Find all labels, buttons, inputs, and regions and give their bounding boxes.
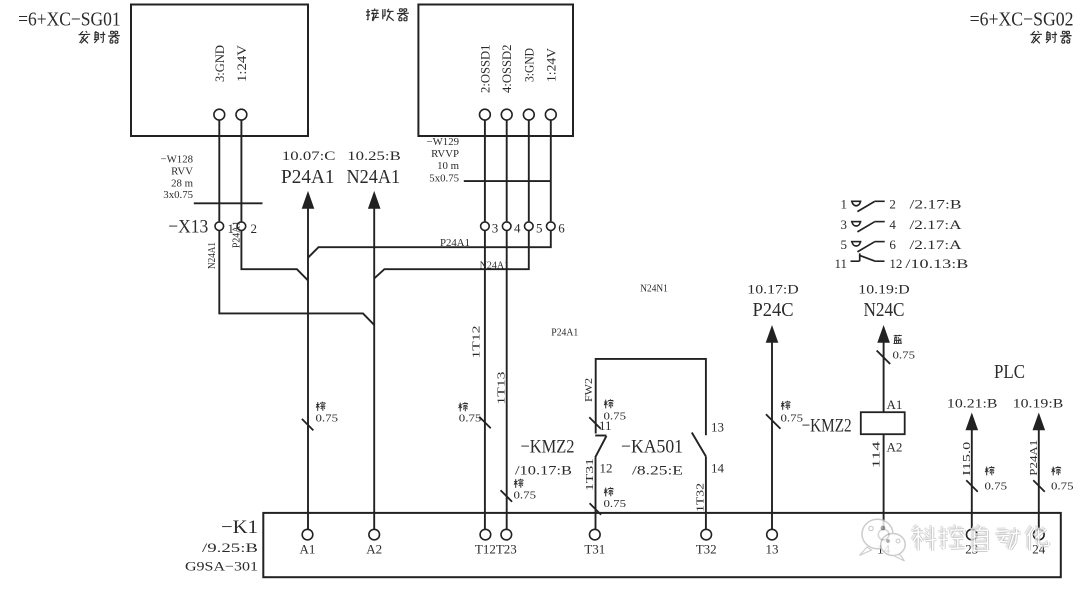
transmitter label 发射器 (left) — [79, 31, 91, 43]
terminal 4 — [502, 222, 511, 231]
svg-text:3:GND: 3:GND — [213, 45, 227, 82]
svg-text:0.75: 0.75 — [604, 499, 627, 510]
svg-text:/2.17:A: /2.17:A — [910, 217, 963, 232]
wire 1T13 terminal4 to K1:T23 — [506, 231, 508, 530]
svg-text:10.07:C: 10.07:C — [282, 149, 336, 163]
core slash (24) — [1033, 480, 1045, 492]
svg-text:6: 6 — [889, 237, 896, 252]
K1 terminal T23 — [501, 529, 512, 540]
wire spec 棕 0.75 (P24A1 riser) — [316, 402, 325, 411]
terminal X13:2 — [237, 222, 246, 231]
K1 terminal T32 — [701, 529, 712, 540]
svg-text:1:24V: 1:24V — [235, 45, 249, 82]
wire 1T12 terminal3 to K1:T12 — [484, 231, 486, 530]
svg-text:3:GND: 3:GND — [522, 48, 536, 82]
K1 terminal 14 — [878, 529, 889, 540]
receiver pin 3:GND — [523, 109, 534, 120]
svg-text:=6+XC−SG01: =6+XC−SG01 — [18, 9, 121, 31]
K1 terminal A1 — [302, 529, 313, 540]
wire X13:2 to P24A1 riser — [241, 231, 308, 280]
core slash N24C — [877, 350, 891, 364]
svg-text:−W128: −W128 — [161, 154, 193, 166]
K1 terminal T12 — [480, 529, 491, 540]
wire X13:1 to N24A1 riser — [219, 231, 374, 325]
svg-text:1:24V: 1:24V — [544, 48, 558, 82]
svg-text:−W129: −W129 — [427, 136, 459, 148]
cable W128 marker line — [194, 202, 263, 204]
wire spec 棕 0.75 (FW2) — [604, 399, 613, 408]
svg-text:/2.17:A: /2.17:A — [910, 237, 963, 252]
svg-text:1T12: 1T12 — [471, 326, 482, 359]
svg-text:A1: A1 — [300, 542, 316, 557]
svg-text:T32: T32 — [696, 542, 717, 557]
svg-text:=6+XC−SG02: =6+XC−SG02 — [970, 9, 1074, 31]
svg-text:P24A1: P24A1 — [231, 221, 242, 248]
svg-text:I15.0: I15.0 — [962, 442, 973, 476]
svg-text:14: 14 — [711, 461, 725, 476]
svg-text:−K1: −K1 — [221, 517, 258, 538]
wire 3:GND to X13:1 — [218, 120, 220, 222]
watermark wechat logo + 科控自动化 — [860, 519, 1049, 561]
svg-text:P24A1: P24A1 — [1029, 440, 1040, 476]
svg-text:RVVP: RVVP — [431, 148, 459, 160]
svg-text:A2: A2 — [887, 440, 903, 455]
svg-text:0.75: 0.75 — [893, 351, 916, 362]
wire spec 棕 0.75 (1T13) — [514, 479, 523, 488]
svg-text:P24A1: P24A1 — [440, 238, 470, 249]
svg-text:4:OSSD2: 4:OSSD2 — [500, 45, 514, 94]
core slash I15.0 — [966, 480, 978, 492]
terminal X13:1 — [215, 222, 224, 231]
svg-text:/2.17:B: /2.17:B — [910, 197, 962, 212]
wire spec 棕 0.75 (P24C) — [781, 401, 790, 410]
svg-text:0.75: 0.75 — [985, 482, 1008, 493]
svg-text:T31: T31 — [584, 542, 605, 557]
terminal 5 — [525, 222, 534, 231]
svg-text:10.17:D: 10.17:D — [747, 283, 798, 297]
cable W129 marker line — [464, 180, 551, 182]
svg-text:11: 11 — [599, 418, 612, 433]
wire FW2 loop top — [596, 359, 706, 435]
svg-text:114: 114 — [872, 440, 883, 468]
svg-text:5x0.75: 5x0.75 — [429, 172, 459, 184]
svg-text:N24N1: N24N1 — [640, 284, 668, 295]
K1 terminal 23 — [967, 529, 978, 540]
core slash 1T13 — [501, 490, 513, 502]
safety relay K1 box — [263, 513, 1061, 577]
wire OSSD2 to terminal 4 — [506, 120, 508, 222]
core slash 1T12 — [479, 417, 491, 429]
svg-text:13: 13 — [766, 542, 779, 557]
svg-text:0.75: 0.75 — [459, 413, 482, 424]
receiver pin 2:OSSD1 — [480, 109, 491, 120]
K1 terminal 24 — [1034, 529, 1045, 540]
svg-text:3x0.75: 3x0.75 — [163, 189, 193, 201]
transmitter pin 3:GND — [214, 109, 225, 120]
svg-text:T12: T12 — [475, 542, 496, 557]
receiver pin 4:OSSD2 — [501, 109, 512, 120]
wire N24A1 riser — [373, 208, 375, 530]
receiver box — [418, 5, 573, 137]
svg-text:10.19:B: 10.19:B — [1013, 396, 1064, 410]
core slash P24A1 riser — [302, 419, 314, 431]
terminal 6 — [547, 222, 556, 231]
svg-text:1T32: 1T32 — [695, 483, 706, 512]
transmitter SG01 box — [131, 5, 308, 137]
svg-text:10.19:D: 10.19:D — [858, 283, 909, 297]
svg-text:5: 5 — [841, 237, 848, 252]
svg-text:12: 12 — [889, 256, 902, 271]
svg-text:P24C: P24C — [752, 300, 793, 321]
svg-text:N24A1: N24A1 — [207, 242, 218, 269]
wire net P24A1 horizontal — [308, 231, 551, 258]
wire spec 棕 0.75 (1T31) — [604, 487, 613, 496]
svg-text:T23: T23 — [496, 542, 517, 557]
svg-text:/8.25:E: /8.25:E — [632, 463, 683, 478]
svg-text:0.75: 0.75 — [514, 491, 537, 502]
svg-text:0.75: 0.75 — [1051, 482, 1074, 493]
K1 terminal 13 — [767, 529, 778, 540]
svg-text:0.75: 0.75 — [781, 414, 804, 425]
svg-text:5: 5 — [536, 221, 543, 236]
wire GND to terminal 5 — [528, 120, 530, 222]
svg-text:6: 6 — [558, 221, 565, 236]
svg-text:−KA501: −KA501 — [621, 437, 683, 458]
svg-text:P24A1: P24A1 — [551, 327, 578, 338]
svg-text:N24C: N24C — [863, 300, 904, 321]
svg-text:2:OSSD1: 2:OSSD1 — [478, 44, 492, 93]
wire P24A1 to K1:24 — [1038, 430, 1040, 530]
wire spec 蓝 0.75 (N24C) — [894, 335, 902, 344]
svg-text:P24A1: P24A1 — [281, 167, 335, 188]
wire 1T32 contact to K1:T32 — [705, 456, 707, 529]
transmitter label 发射器 (right) — [1030, 31, 1042, 43]
svg-text:−X13: −X13 — [168, 217, 208, 238]
svg-text:FW2: FW2 — [584, 378, 595, 402]
wire spec 棕 0.75 (1T12) — [459, 402, 468, 411]
svg-text:10 m: 10 m — [437, 160, 459, 172]
wire 114 coil A2 to K1:14 — [883, 434, 885, 529]
wire 1T31 contact to K1:T31 — [595, 457, 597, 529]
core slash 1T31 — [590, 503, 602, 515]
svg-text:3: 3 — [492, 221, 499, 236]
svg-text:1T13: 1T13 — [496, 372, 507, 405]
wire N24C to coil A1 — [883, 342, 885, 412]
svg-text:2: 2 — [889, 197, 896, 212]
svg-text:2: 2 — [251, 221, 258, 236]
svg-text:10.25:B: 10.25:B — [347, 149, 401, 163]
svg-text:RVV: RVV — [171, 166, 193, 178]
wire P24C to K1:13 — [771, 342, 773, 530]
svg-text:/10.13:B: /10.13:B — [905, 256, 968, 271]
core slash P24C — [766, 414, 781, 429]
wire 1:24V to X13:2 — [240, 120, 242, 222]
svg-text:N24A1: N24A1 — [347, 167, 401, 188]
terminal 3 — [481, 222, 490, 231]
wire net N24A1 horizontal — [374, 231, 529, 278]
svg-text:−KMZ2: −KMZ2 — [521, 437, 575, 458]
contact -KA501 13/14 — [692, 433, 706, 457]
svg-text:1T31: 1T31 — [585, 458, 596, 491]
svg-text:13: 13 — [711, 420, 724, 435]
receiver label 接收器 — [366, 9, 379, 22]
svg-text:11: 11 — [834, 256, 847, 271]
svg-text:1: 1 — [841, 197, 848, 212]
svg-text:28 m: 28 m — [171, 178, 193, 190]
receiver pin 1:24V — [545, 109, 556, 120]
wire OSSD1 to terminal 3 — [484, 120, 486, 222]
wire spec 棕 0.75 (I15.0) — [985, 466, 994, 475]
svg-text:/10.17:B: /10.17:B — [515, 463, 572, 478]
svg-text:A1: A1 — [887, 397, 903, 412]
wire I15.0 to K1:23 — [971, 430, 973, 530]
wire 24V to terminal 6 — [550, 120, 552, 222]
contact -KMZ2 11/12 — [595, 435, 606, 437]
svg-text:0.75: 0.75 — [316, 414, 339, 425]
svg-text:10.21:B: 10.21:B — [947, 396, 998, 410]
core slash FW2 — [589, 417, 601, 429]
svg-text:3: 3 — [841, 217, 848, 232]
K1 terminal A2 — [369, 529, 380, 540]
svg-text:12: 12 — [600, 461, 613, 476]
wire spec 棕 0.75 (24) — [1052, 466, 1061, 475]
K1 terminal T31 — [590, 529, 601, 540]
transmitter pin 1:24V — [236, 109, 247, 120]
svg-text:A2: A2 — [366, 542, 382, 557]
svg-text:−KMZ2: −KMZ2 — [802, 416, 852, 437]
svg-text:PLC: PLC — [994, 361, 1025, 383]
svg-text:G9SA−301: G9SA−301 — [185, 559, 258, 574]
svg-text:4: 4 — [514, 221, 521, 236]
svg-text:/9.25:B: /9.25:B — [202, 540, 258, 555]
wire P24A1 riser — [307, 208, 309, 530]
svg-text:4: 4 — [889, 217, 896, 232]
